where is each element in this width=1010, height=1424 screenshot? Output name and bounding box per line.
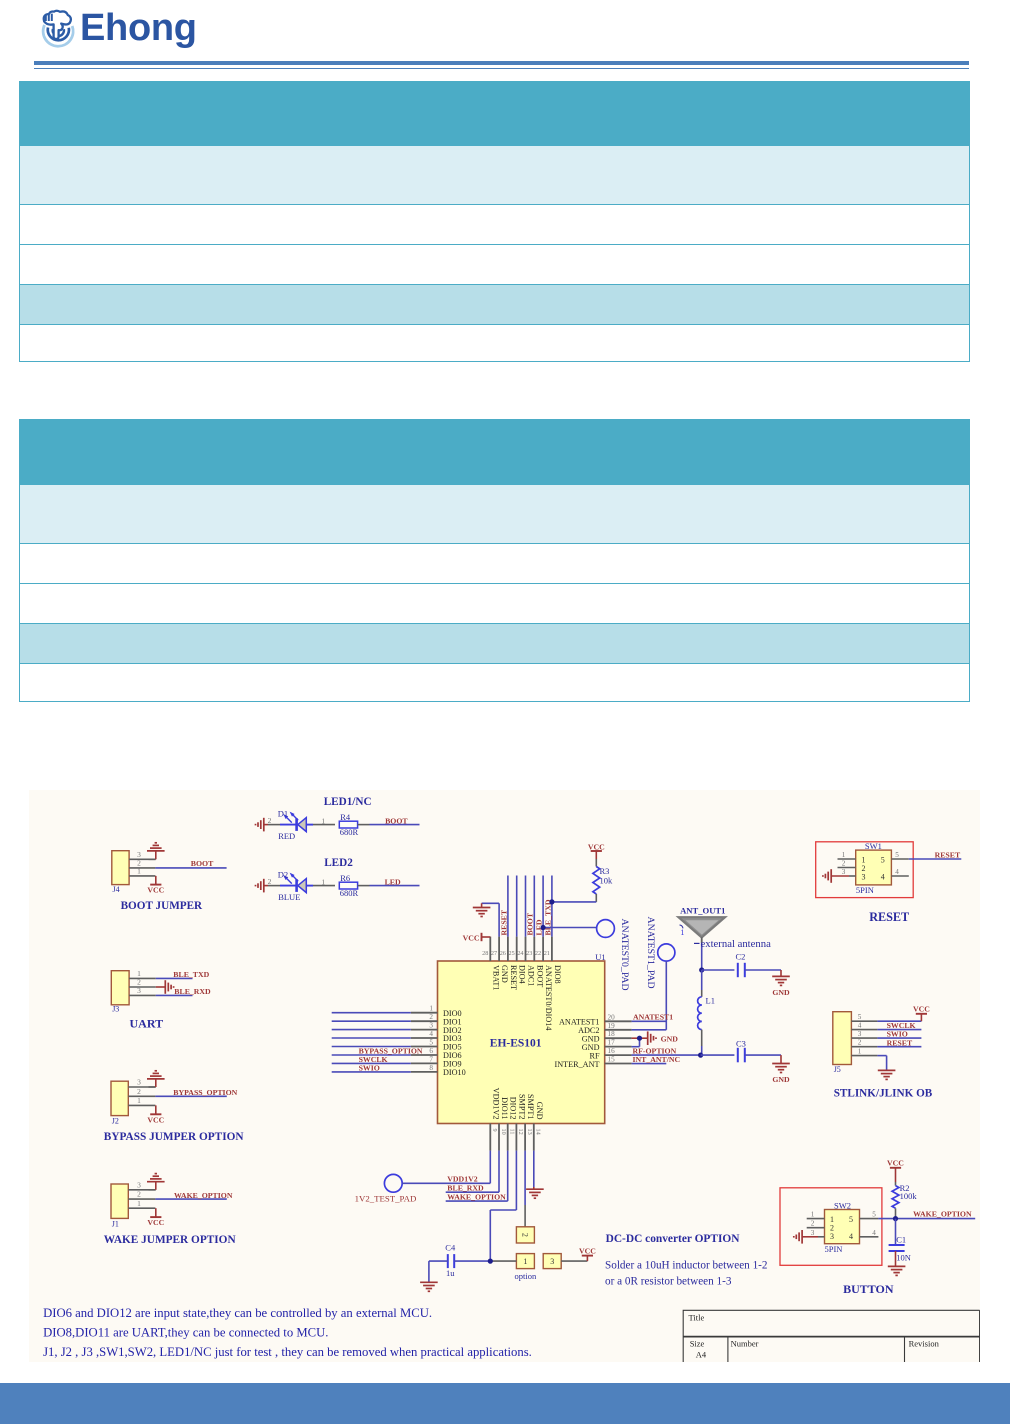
junction — [699, 967, 704, 972]
wire SMPT1 to pad 2 — [524, 1151, 526, 1227]
svg-text:1: 1 — [429, 1005, 433, 1013]
wire RESET vertical — [507, 876, 509, 937]
junction — [541, 925, 546, 930]
svg-text:1: 1 — [842, 851, 846, 859]
node RESET (rotated) — [499, 909, 508, 935]
svg-text:100k: 100k — [900, 1191, 918, 1201]
svg-text:ANATEST1: ANATEST1 — [633, 1013, 673, 1022]
svg-text:11: 11 — [509, 1129, 516, 1135]
svg-text:2: 2 — [429, 1013, 433, 1021]
svg-text:C4: C4 — [445, 1243, 456, 1253]
svg-text:BUTTON: BUTTON — [843, 1282, 894, 1296]
U1 bottom pin numbers — [491, 1129, 541, 1135]
connector J1 — [111, 1184, 128, 1228]
svg-text:26: 26 — [500, 950, 506, 957]
power VCC at pad 3 — [579, 1246, 596, 1255]
svg-text:3: 3 — [137, 1181, 141, 1190]
U1 left pin stubs — [411, 1013, 438, 1072]
pad ANATEST0_PAD circle — [597, 920, 615, 938]
svg-text:12: 12 — [517, 1129, 524, 1135]
svg-text:23: 23 — [526, 950, 532, 957]
wire pin18 to ground — [632, 1037, 648, 1039]
svg-text:2: 2 — [137, 1087, 141, 1096]
wire WAKE_OPTION — [155, 1198, 226, 1200]
svg-text:A4: A4 — [696, 1350, 707, 1360]
wire LED vertical — [542, 876, 544, 937]
pin stubs J1 — [128, 1181, 155, 1209]
designator U1 — [595, 952, 605, 962]
ground pins17-18 — [648, 1031, 656, 1045]
label EH-ES101 — [490, 1037, 542, 1049]
node BYPASS_OPTION — [173, 1088, 237, 1097]
wire VDD1V2 — [402, 1151, 490, 1184]
svg-text:14: 14 — [535, 1129, 542, 1135]
wire BLE_RXD — [446, 1151, 499, 1193]
svg-text:3: 3 — [842, 868, 846, 876]
wire pin2 — [156, 986, 165, 988]
node WAKE_OPTION — [447, 1192, 506, 1201]
power VCC at R2 — [887, 1159, 904, 1182]
ground C1 — [888, 1266, 906, 1275]
node BLE_RXD — [174, 987, 211, 996]
svg-text:J4: J4 — [113, 885, 120, 894]
wire INT_ANT/NC — [632, 1063, 667, 1065]
ground near U1 top — [473, 908, 491, 917]
svg-text:BOOT: BOOT — [191, 859, 214, 868]
svg-text:5: 5 — [895, 851, 899, 859]
svg-text:J1, J2 , J3 ,SW1,SW2, LED1/NC: J1, J2 , J3 ,SW1,SW2, LED1/NC just for t… — [43, 1345, 532, 1359]
wire C4 left to ground — [429, 1261, 448, 1282]
svg-text:WAKE JUMPER OPTION: WAKE JUMPER OPTION — [104, 1234, 237, 1246]
svg-text:GND: GND — [661, 1034, 679, 1043]
ground U1 pin14 — [526, 1189, 544, 1198]
svg-text:10N: 10N — [896, 1252, 911, 1262]
svg-text:STLINK/JLINK OB: STLINK/JLINK OB — [834, 1087, 933, 1099]
svg-text:or a 0R resistor between 1-3: or a 0R resistor between 1-3 — [605, 1276, 732, 1288]
svg-text:28: 28 — [482, 950, 488, 957]
title block — [683, 1310, 979, 1362]
wire C3 to ground — [745, 1055, 781, 1063]
svg-text:BLUE: BLUE — [278, 892, 300, 902]
svg-text:24: 24 — [517, 950, 523, 957]
svg-text:680R: 680R — [340, 888, 359, 898]
node RESET J5 — [887, 1038, 913, 1047]
capacitor C4 1u — [445, 1243, 456, 1278]
svg-text:J3: J3 — [112, 1004, 119, 1013]
svg-text:WAKE_OPTION: WAKE_OPTION — [447, 1192, 506, 1201]
svg-text:L1: L1 — [706, 996, 715, 1006]
node RESET — [935, 851, 961, 860]
pad 2 — [516, 1227, 534, 1243]
svg-text:2: 2 — [811, 1220, 815, 1228]
ground J2 — [147, 1071, 165, 1079]
wire — [268, 877, 280, 886]
svg-text:BOOT: BOOT — [535, 965, 544, 987]
svg-text:2: 2 — [137, 1190, 141, 1199]
label LED1/NC — [324, 796, 372, 808]
svg-text:J1: J1 — [112, 1219, 119, 1228]
wire U1 pin 5 — [332, 1046, 411, 1048]
U1 left pin numbers — [429, 1005, 433, 1072]
note line 3 — [43, 1345, 532, 1359]
label BYPASS JUMPER OPTION — [104, 1131, 245, 1143]
note line 1 — [43, 1306, 432, 1320]
svg-text:VCC: VCC — [579, 1246, 596, 1255]
wire WAKE_OPTION — [446, 1151, 508, 1202]
wire pin1 to VCC — [155, 1208, 157, 1217]
svg-text:19: 19 — [608, 1022, 616, 1030]
power VCC J5 — [913, 1005, 930, 1014]
svg-text:external antenna: external antenna — [701, 938, 772, 950]
wire — [358, 885, 420, 887]
designator SW2 — [834, 1200, 851, 1210]
wire ANATEST1 pad down — [665, 961, 667, 1030]
ground J1 — [147, 1174, 165, 1182]
pad 1V2_TEST_PAD circle — [384, 1174, 402, 1192]
node WAKE_OPTION SW2 — [913, 1210, 972, 1219]
svg-text:27: 27 — [491, 950, 497, 957]
wire L1 down — [701, 1030, 703, 1056]
svg-text:2: 2 — [520, 1233, 529, 1237]
ground J3 pin2 — [165, 980, 173, 994]
svg-text:RESET: RESET — [869, 910, 909, 924]
svg-text:LED: LED — [385, 877, 401, 886]
svg-text:ANATEST1_PAD: ANATEST1_PAD — [645, 917, 656, 989]
svg-text:5PIN: 5PIN — [825, 1244, 843, 1254]
svg-text:VCC: VCC — [463, 933, 480, 942]
resistor R4 680R — [339, 812, 358, 837]
wire to C2 — [702, 969, 735, 971]
svg-text:RESET: RESET — [887, 1038, 913, 1047]
wire to C3 — [701, 1054, 735, 1056]
wire RESET J5 — [877, 1046, 921, 1048]
svg-text:18: 18 — [608, 1030, 616, 1038]
svg-text:1: 1 — [858, 1047, 862, 1055]
node VDD1V2 — [447, 1175, 477, 1184]
wire U1 pin 1 — [332, 1012, 411, 1014]
svg-text:BLE_TXD: BLE_TXD — [543, 899, 552, 935]
ground C3 — [772, 1064, 790, 1073]
svg-text:VBAT1: VBAT1 — [491, 965, 500, 990]
node SWIO — [887, 1030, 908, 1039]
svg-text:1: 1 — [137, 1096, 141, 1105]
wire RF-OPTION — [632, 1054, 701, 1056]
wire DIO4 vertical — [516, 876, 518, 937]
label ANATEST0_PAD (rotated) — [619, 919, 630, 991]
label 5PIN SW2 — [825, 1244, 843, 1254]
pad 3 — [543, 1254, 561, 1269]
svg-text:BYPASS_OPTION: BYPASS_OPTION — [173, 1088, 237, 1097]
svg-text:DC-DC converter OPTION: DC-DC converter OPTION — [606, 1233, 741, 1245]
svg-text:5: 5 — [872, 1211, 876, 1219]
wire R3 to DIO8 — [552, 894, 596, 902]
wire BLE_RXD — [156, 994, 193, 996]
wire SMPT2 to junction — [490, 1151, 516, 1262]
node BOOT — [385, 816, 408, 825]
svg-text:DIO8,DIO11 are UART,they can b: DIO8,DIO11 are UART,they can be connecte… — [43, 1325, 328, 1339]
ground SW1 — [823, 869, 831, 883]
capacitor C3 — [736, 1039, 746, 1063]
power VCC J2 — [147, 1114, 164, 1124]
connector J5 — [833, 1012, 852, 1074]
svg-text:7: 7 — [429, 1055, 433, 1063]
svg-text:VCC: VCC — [147, 1218, 164, 1227]
U1 right pin numbers — [608, 1013, 616, 1063]
svg-text:LED2: LED2 — [324, 857, 353, 869]
svg-text:1u: 1u — [446, 1268, 455, 1278]
footer bar — [0, 1383, 1010, 1424]
svg-text:VCC: VCC — [887, 1159, 904, 1168]
wire WAKE_OPTION SW2 — [878, 1218, 975, 1220]
U1 top pin stubs — [490, 937, 552, 961]
ground C2 — [772, 976, 790, 985]
node SWIO — [359, 1064, 380, 1073]
svg-text:BOOT: BOOT — [385, 816, 408, 825]
node BLE_TXD — [173, 970, 209, 979]
svg-text:SMPT1: SMPT1 — [526, 1094, 535, 1119]
node BLE_RXD — [447, 1183, 484, 1192]
wire RESET — [909, 858, 962, 860]
svg-text:DIO11: DIO11 — [500, 1097, 509, 1119]
pin stubs J2 — [128, 1078, 155, 1106]
wire J5 pin1 to ground — [877, 1056, 886, 1071]
wire GND pin14 — [533, 1151, 535, 1189]
svg-text:RESET: RESET — [499, 909, 508, 935]
wire U1 pin 6 — [332, 1054, 411, 1056]
svg-text:GND: GND — [535, 1102, 544, 1120]
svg-text:3: 3 — [811, 1229, 815, 1237]
node GND — [661, 1034, 679, 1043]
J5 pin stubs — [851, 1013, 877, 1056]
connector J3 — [111, 971, 129, 1014]
svg-text:C3: C3 — [736, 1039, 746, 1049]
svg-text:2: 2 — [858, 1039, 862, 1047]
svg-text:RESET: RESET — [509, 965, 518, 990]
svg-text:BOOT: BOOT — [526, 912, 535, 935]
SW1 left pin stubs — [838, 851, 856, 876]
power VCC J4 — [147, 885, 164, 895]
diode D2 — [280, 873, 313, 893]
connector J4 — [112, 851, 129, 894]
node GND — [772, 988, 790, 997]
U1 right pin names — [554, 1018, 599, 1069]
pin stubs J3 — [129, 969, 156, 995]
svg-text:3: 3 — [137, 1078, 141, 1087]
pad 1 — [516, 1254, 534, 1269]
power VCC at R3 — [588, 842, 605, 859]
title block texts — [689, 1313, 940, 1360]
svg-text:SW1: SW1 — [865, 841, 882, 851]
node SWCLK — [359, 1055, 388, 1064]
capacitor C2 — [736, 952, 746, 978]
wire SWCLK — [877, 1029, 921, 1031]
svg-text:3: 3 — [137, 986, 141, 995]
wire — [268, 816, 280, 825]
svg-text:DIO6 and DIO12 are input state: DIO6 and DIO12 are input state,they can … — [43, 1306, 432, 1320]
label 1V2_TEST_PAD — [355, 1194, 417, 1204]
wire U1 pin 2 — [332, 1020, 411, 1022]
node LED — [385, 877, 401, 886]
wire ADC2 — [632, 1029, 667, 1031]
svg-text:1: 1 — [137, 1199, 141, 1208]
node BOOT — [191, 859, 214, 868]
svg-text:3: 3 — [830, 1232, 834, 1241]
svg-text:WAKE_OPTION: WAKE_OPTION — [913, 1210, 972, 1219]
ground J4 — [147, 843, 165, 851]
wire pin 27 to ground — [482, 903, 500, 936]
wire BYPASS_OPTION — [155, 1095, 226, 1097]
svg-text:D1: D1 — [278, 808, 288, 818]
svg-text:Number: Number — [731, 1338, 759, 1348]
svg-text:5: 5 — [849, 1215, 853, 1224]
label RESET — [869, 910, 909, 924]
wire pin3 to ground — [149, 1182, 156, 1190]
wire pin3 to ground — [149, 851, 156, 859]
svg-text:R6: R6 — [340, 873, 350, 883]
svg-text:1V2_TEST_PAD: 1V2_TEST_PAD — [355, 1194, 417, 1204]
ground C4 — [420, 1282, 438, 1291]
switch SW2 — [825, 1210, 860, 1244]
ground SW2 — [794, 1230, 802, 1244]
wire BLE_TXD — [156, 977, 193, 979]
svg-text:ANT_OUT1: ANT_OUT1 — [680, 906, 725, 916]
svg-text:1: 1 — [523, 1257, 527, 1266]
label 5PIN — [856, 885, 874, 895]
svg-text:ANATEST0_PAD: ANATEST0_PAD — [619, 919, 630, 991]
svg-text:VCC: VCC — [147, 886, 164, 895]
resistor R3 10k — [593, 859, 613, 894]
svg-text:Title: Title — [689, 1313, 705, 1323]
svg-text:1: 1 — [321, 816, 325, 825]
wire pin1 to VCC — [155, 876, 157, 884]
wire SW1 pin3 to ground — [832, 875, 849, 877]
junction — [698, 1053, 703, 1058]
note line 2 — [43, 1325, 328, 1339]
switch SW1 — [856, 850, 892, 885]
U1 top pin numbers — [482, 950, 550, 957]
svg-text:INT_ANT/NC: INT_ANT/NC — [633, 1055, 681, 1064]
U1 bottom pin stubs — [490, 1124, 534, 1151]
svg-text:3: 3 — [429, 1022, 433, 1030]
label BOOT JUMPER — [121, 900, 203, 912]
svg-text:WAKE_OPTION: WAKE_OPTION — [174, 1191, 233, 1200]
node BLE_TXD (rotated) — [543, 899, 552, 935]
label BLUE — [278, 892, 300, 902]
svg-text:J5: J5 — [834, 1065, 841, 1074]
wire U1 pin 8 — [332, 1071, 411, 1073]
IC U1 EH-ES101 body — [438, 961, 605, 1124]
svg-text:15: 15 — [608, 1056, 616, 1064]
wire junction to C1 — [895, 1219, 897, 1245]
svg-text:BLE_TXD: BLE_TXD — [173, 970, 209, 979]
wire U1 pin 7 — [332, 1062, 411, 1064]
node GND — [772, 1075, 790, 1084]
svg-text:4: 4 — [895, 868, 899, 876]
wire antenna down — [701, 937, 703, 970]
svg-text:DIO8: DIO8 — [553, 965, 562, 984]
svg-text:6: 6 — [429, 1047, 433, 1055]
svg-text:9: 9 — [491, 1129, 498, 1132]
label DC-DC converter OPTION — [606, 1233, 741, 1245]
svg-text:DIO12: DIO12 — [509, 1097, 518, 1120]
antenna ANT_OUT1 — [679, 906, 726, 938]
svg-text:4: 4 — [872, 1229, 876, 1237]
wire ADC1 vertical — [525, 876, 527, 937]
box SW2 outline — [780, 1188, 882, 1266]
svg-text:10: 10 — [500, 1129, 507, 1135]
svg-text:DIO10: DIO10 — [443, 1068, 466, 1077]
wire BOOT — [155, 867, 226, 869]
table 1 — [19, 81, 970, 362]
node BOOT (rotated) — [526, 912, 535, 935]
node BYPASS_OPTION — [359, 1047, 423, 1056]
SW2 right pin stubs — [860, 1211, 879, 1237]
wire — [313, 877, 335, 886]
svg-text:BLE_RXD: BLE_RXD — [174, 987, 211, 996]
svg-text:Revision: Revision — [909, 1338, 940, 1348]
svg-text:J2: J2 — [112, 1117, 119, 1126]
svg-text:1: 1 — [321, 877, 325, 886]
U1 right pin stubs — [605, 1021, 632, 1063]
svg-text:20: 20 — [608, 1013, 616, 1021]
svg-text:VCC: VCC — [588, 842, 605, 851]
junction — [893, 1216, 898, 1221]
node SWCLK — [887, 1021, 916, 1030]
inductor L1 — [698, 996, 715, 1030]
svg-text:1: 1 — [811, 1211, 815, 1219]
power VCC J1 — [147, 1217, 164, 1227]
label STLINK/JLINK OB — [834, 1087, 933, 1099]
ground — [256, 879, 269, 893]
svg-text:5PIN: 5PIN — [856, 885, 874, 895]
diode D1 — [280, 812, 313, 832]
wire pin17 bend — [632, 1038, 640, 1047]
node WAKE_OPTION — [174, 1191, 233, 1200]
svg-text:3: 3 — [862, 873, 866, 882]
label ANATEST1_PAD (rotated) — [645, 917, 656, 989]
svg-text:2: 2 — [842, 860, 846, 868]
svg-text:GND: GND — [500, 965, 509, 983]
wire BLE_TXD vertical — [551, 876, 553, 937]
U1 top pin names — [491, 965, 562, 1031]
svg-text:GND: GND — [772, 1075, 790, 1084]
wire J5 pin5 to VCC — [877, 1014, 921, 1021]
resistor R6 680R — [339, 873, 358, 898]
label D1 — [278, 808, 288, 818]
svg-text:BLE_RXD: BLE_RXD — [447, 1183, 484, 1192]
svg-text:EH-ES101: EH-ES101 — [490, 1037, 542, 1049]
svg-text:RESET: RESET — [935, 851, 961, 860]
svg-text:option: option — [515, 1271, 537, 1281]
svg-text:4: 4 — [881, 873, 885, 882]
svg-text:BYPASS JUMPER OPTION: BYPASS JUMPER OPTION — [104, 1131, 245, 1143]
svg-text:680R: 680R — [340, 827, 359, 837]
svg-text:4: 4 — [849, 1232, 853, 1241]
double rule — [34, 61, 969, 65]
svg-text:SMPT2: SMPT2 — [517, 1094, 526, 1119]
svg-text:4: 4 — [858, 1021, 862, 1029]
svg-text:LED1/NC: LED1/NC — [324, 796, 372, 808]
SW2 left pin stubs — [807, 1211, 825, 1237]
svg-text:8: 8 — [429, 1064, 433, 1072]
svg-text:C2: C2 — [736, 952, 746, 962]
power VCC at pin 28 — [463, 933, 491, 943]
svg-text:ANATEST0/DIO14: ANATEST0/DIO14 — [544, 965, 553, 1031]
svg-text:3: 3 — [858, 1030, 862, 1038]
svg-text:GND: GND — [772, 988, 790, 997]
label solder line 1 — [605, 1259, 768, 1271]
node RF-OPTION — [633, 1046, 677, 1055]
